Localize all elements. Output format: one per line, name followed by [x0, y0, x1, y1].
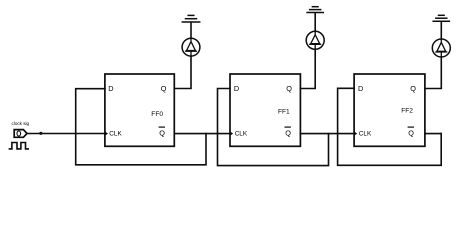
ground GND1 — [307, 7, 323, 13]
LED D2 — [432, 39, 450, 57]
CLK pin marker FF2 — [355, 132, 358, 136]
clock label text — [12, 121, 30, 126]
clock source CLK1 — [9, 121, 29, 149]
svg-text:FF1: FF1 — [278, 108, 290, 115]
flip-flop FF2 — [354, 74, 425, 146]
wire LED0 to ground — [190, 23, 192, 38]
ground GND0 — [182, 15, 199, 22]
svg-text:CLK: CLK — [235, 131, 248, 138]
LED D0 — [182, 38, 200, 56]
wire clock to FF0 CLK — [27, 133, 105, 135]
svg-text:clock sig: clock sig — [12, 121, 30, 126]
wire FF0 Q to LED0 — [174, 56, 191, 88]
ground GND2 — [433, 15, 449, 21]
Qbar overline FF0 — [159, 126, 164, 128]
Qbar overline FF1 — [285, 126, 290, 128]
svg-text:Q: Q — [286, 84, 292, 93]
flip-flop FF1 — [230, 74, 300, 146]
wire FF2 Q to LED2 — [425, 57, 441, 89]
svg-text:Q: Q — [161, 84, 167, 93]
wire FF0 feedback Qbar to D — [76, 89, 206, 165]
svg-text:Q: Q — [408, 128, 414, 137]
svg-text:Q: Q — [410, 84, 416, 93]
svg-text:FF0: FF0 — [151, 111, 163, 118]
svg-text:Q: Q — [285, 128, 291, 137]
wire FF2 Qbar out — [425, 133, 441, 135]
wire FF0 Qbar to FF1 CLK — [174, 133, 230, 135]
svg-text:D: D — [358, 84, 363, 93]
CLK pin marker FF1 — [231, 132, 234, 136]
svg-text:FF2: FF2 — [401, 108, 413, 115]
wire FF1 feedback Qbar to D — [218, 89, 329, 166]
svg-text:CLK: CLK — [359, 131, 372, 138]
Qbar overline FF2 — [408, 126, 413, 128]
svg-text:D: D — [108, 84, 113, 93]
wire FF1 Q to LED1 — [300, 49, 315, 88]
junction dot clock output — [39, 132, 42, 135]
wire FF2 feedback Qbar to D — [338, 88, 442, 165]
clock tag pentagon — [14, 130, 27, 138]
flip-flop FF0 — [105, 74, 174, 146]
clock 0 glyph — [17, 131, 21, 136]
CLK pin marker FF0 — [105, 132, 108, 136]
LED D1 — [306, 31, 324, 49]
wire LED1 to ground — [314, 14, 316, 32]
wire LED2 to ground — [440, 22, 442, 39]
clock square wave glyph — [9, 143, 28, 149]
svg-text:Q: Q — [159, 128, 165, 137]
svg-text:D: D — [234, 84, 239, 93]
svg-text:CLK: CLK — [109, 131, 122, 138]
wire FF1 Qbar to FF2 CLK — [300, 133, 354, 135]
